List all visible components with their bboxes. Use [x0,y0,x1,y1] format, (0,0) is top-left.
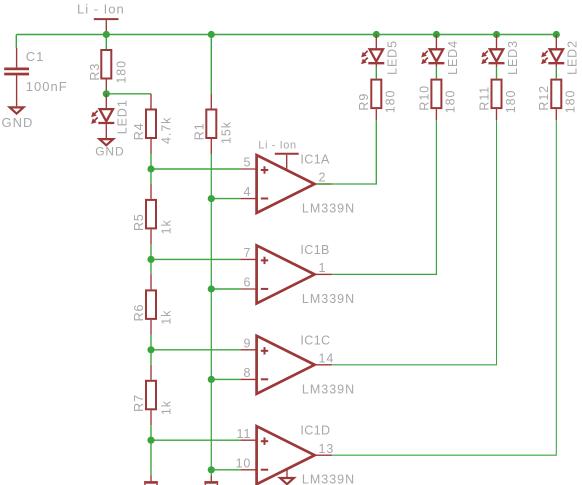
wire: node B to R6 [150,259,152,274]
label R6 [132,304,146,322]
label IC1C [300,333,330,347]
svg-text:2: 2 [319,171,327,185]
label pin 10 [236,456,252,470]
pin: R1 top pin [210,94,212,109]
svg-text:180: 180 [384,90,398,114]
junction: bus at IC1D - input [208,466,215,473]
svg-text:LM339N: LM339N [302,382,355,396]
label pin 4 [243,185,251,199]
label GND (C1) [2,115,34,130]
svg-text:LED1: LED1 [116,99,130,134]
wire: bus to IC1C - input [211,378,240,380]
pin: R6 bottom pin [150,320,152,335]
pin 5: IC1A non-inverting input stub [240,168,256,170]
resistor R9 [371,80,381,109]
pin 11: IC1D non-inverting input stub [240,439,256,441]
pin 10: IC1D inverting input stub [240,469,256,471]
svg-text:180: 180 [115,60,129,84]
svg-text:180: 180 [564,90,578,114]
label LM339N (IC1D value) [302,473,355,485]
pin: R5 bottom pin [150,229,152,244]
label R9 [357,93,371,111]
op-amp comparator IC1C (LM339N) [257,336,315,394]
pin 8: IC1C inverting input stub [240,378,256,380]
resistor R7 [146,381,156,410]
pin: R6 top pin [150,274,152,289]
label LED2 [566,40,580,75]
pin: R1 bottom pin [210,139,212,154]
resistor R12 [551,80,561,109]
wire: node to IC1B + input [151,258,240,260]
pin 7: IC1B non-inverting input stub [240,258,256,260]
junction: rail at LED5 [373,31,380,38]
label R10 [417,85,431,111]
capacitor C1 [4,48,29,107]
svg-text:R12: R12 [537,85,551,111]
label LM339N (IC1B value) [302,292,355,306]
wire: rail down to R1 [210,35,212,94]
label pin 8 [243,366,251,380]
svg-text:R3: R3 [88,63,102,81]
svg-text:LED3: LED3 [506,40,520,75]
label 4.7k (value of R4) [160,117,174,144]
ground symbol GND (bottom of divider, clipped at image edge) [144,482,158,485]
wire: node to IC1A + input [151,168,240,170]
svg-text:15k: 15k [220,121,234,144]
pin 2: IC1A output stub [316,183,332,185]
wire: node D down to ground [150,440,152,475]
wire: R5 to node B [150,244,152,259]
label R4 [132,122,146,140]
svg-text:180: 180 [504,90,518,114]
svg-text:Li - Ion: Li - Ion [258,140,296,152]
diode LED4 [421,35,444,67]
power symbol Li - Ion (battery positive rail) [94,19,119,34]
svg-text:R10: R10 [417,85,431,111]
svg-text:GND: GND [95,145,124,159]
pin 14: IC1C output stub [316,364,332,366]
wire: IC1D output up to LED column [332,120,556,455]
wire: top supply rail [16,34,556,36]
svg-text:R1: R1 [192,122,206,140]
label pin 6 [243,276,251,290]
wire: node A to R5 [150,169,152,184]
pin: R11 bottom pin [496,109,498,120]
label R5 [132,213,146,231]
wire: rail down to R3 [105,35,107,50]
wire: IC1A output up to LED column [332,120,376,184]
svg-text:8: 8 [243,366,251,380]
label pin 11 [237,427,252,441]
svg-text:IC1C: IC1C [300,333,330,347]
svg-text:LM339N: LM339N [302,292,355,306]
wire: bus to IC1D - input [211,469,240,471]
wire: LED5 cathode to R9 [375,67,377,79]
pin: GND pin under divider [150,476,152,482]
pin 4: IC1A inverting input stub [240,198,256,200]
label IC1D [300,424,330,438]
svg-text:C1: C1 [26,49,45,64]
junction: rail at R1 top [208,31,215,38]
diode LED3 [481,35,504,67]
svg-text:4.7k: 4.7k [160,117,174,144]
pin: R7 top pin [150,365,152,380]
wire: IC1C output up to LED column [332,120,497,364]
diode LED2 [541,35,564,67]
junction: rail at LED4 [433,31,440,38]
pin: R10 bottom pin [435,109,437,120]
label LED1 [116,99,130,134]
resistor R4 [146,110,156,139]
wire: R4 to divider node A [150,154,152,169]
label 100nF (value of C1) [26,79,68,94]
wire: LED4 cathode to R10 [435,67,437,79]
label LED4 [446,40,460,75]
svg-text:11: 11 [237,427,252,441]
svg-text:LM339N: LM339N [302,202,355,216]
wire: node C to R7 [150,350,152,365]
resistor R3 [101,50,111,79]
diode LED5 [361,35,384,67]
label 1k (value of R6) [160,310,174,325]
label LED3 [506,40,520,75]
pin: R3 bottom pin [105,80,107,94]
resistor R5 [146,200,156,229]
label pin 1 [319,261,327,275]
pin: R7 bottom pin [150,410,152,425]
svg-text:180: 180 [444,90,458,114]
wire: node to IC1C + input [151,349,240,351]
label pin 2 [319,171,327,185]
label R1 [192,122,206,140]
svg-text:R4: R4 [132,122,146,140]
resistor R1 [206,110,216,139]
ground symbol GND (below C1) [10,107,24,113]
junction: rail at LED3 [493,31,500,38]
svg-text:Li - Ion: Li - Ion [77,1,125,16]
label GND (LED1) [95,145,124,159]
svg-text:R9: R9 [357,93,371,111]
svg-text:IC1D: IC1D [300,424,330,438]
svg-text:1k: 1k [160,219,174,234]
junction: bus at IC1B - input [208,285,215,292]
label 1k (value of R7) [160,400,174,415]
label IC1B [300,243,329,257]
junction: bus at IC1C - input [208,376,215,383]
label 1k (value of R5) [160,219,174,234]
svg-text:7: 7 [243,246,251,260]
label 180 (value of R10) [444,90,458,114]
junction: R3 / LED1 / wire to R4 [103,90,110,97]
pin 13: IC1D output stub [316,454,332,456]
pin 6: IC1B inverting input stub [240,288,256,290]
svg-text:4: 4 [243,185,251,199]
pin 9: IC1C non-inverting input stub [240,349,256,351]
svg-text:LED4: LED4 [446,40,460,75]
pin: R4 top pin [150,94,152,109]
ground symbol GND (below LED1) [99,139,113,145]
junction: node B (R5/R6/IC1B+) [147,256,154,263]
label 180 (value of R11) [504,90,518,114]
junction: rail at LED2 [553,31,560,38]
junction: node D (R7/IC1D+) [147,437,154,444]
wire: rail down to C1 [15,35,17,48]
junction: node A (R4/R5/IC1A+) [147,165,154,172]
svg-text:R11: R11 [477,86,491,111]
resistor R11 [492,80,502,109]
pin: R12 bottom pin [555,109,557,120]
svg-text:100nF: 100nF [26,79,68,94]
label IC1A [300,153,330,167]
op-amp comparator IC1B (LM339N) [257,245,315,303]
wire: LED3 cathode to R11 [496,67,498,79]
diode LED1 (battery indicator) [91,94,114,138]
pin 1: IC1B output stub [316,273,332,275]
wire: node to IC1D + input [151,439,240,441]
label 15k (value of R1) [220,121,234,144]
pin: R4 bottom pin [150,139,152,154]
svg-text:10: 10 [236,456,252,470]
wire: R7 to node D [150,425,152,440]
junction: bus at IC1A - input [208,195,215,202]
resistor R10 [431,80,441,109]
pin: GND pin under R1 bus [210,476,212,482]
label 180 (value of R12) [564,90,578,114]
svg-text:13: 13 [319,442,335,456]
power symbol Li - Ion (V+ pin 3 of IC1A) [275,154,299,170]
label R7 [132,394,146,412]
wire: LED2 cathode to R12 [555,67,557,79]
wire: R6 to node C [150,335,152,350]
wire: bus to IC1A - input [211,198,240,200]
junction: rail at R3 top [103,31,110,38]
svg-text:IC1B: IC1B [300,243,329,257]
label C1 [26,49,45,64]
resistor R6 [146,290,156,319]
svg-text:LM339N: LM339N [302,473,355,485]
label LM339N (IC1A value) [302,202,355,216]
label 180 (value of R9) [384,90,398,114]
label R3 [88,63,102,81]
svg-text:1: 1 [319,261,327,275]
label 180 (value of R3) [115,60,129,84]
wire: IC1B output up to LED column [332,120,437,274]
svg-text:R7: R7 [132,394,146,412]
svg-text:1k: 1k [160,310,174,325]
svg-text:14: 14 [319,351,335,365]
svg-text:1k: 1k [160,400,174,415]
label LED5 [386,40,400,75]
label Li - Ion (top supply) [77,1,125,16]
label pin 7 [243,246,251,260]
op-amp comparator IC1A (LM339N) [257,155,315,213]
svg-text:LED2: LED2 [566,40,580,75]
svg-text:GND: GND [2,115,34,130]
label LM339N (IC1C value) [302,382,355,396]
label pin 5 [243,156,251,170]
junction: node C (R6/R7/IC1C+) [147,346,154,353]
svg-text:IC1A: IC1A [300,153,330,167]
op-amp comparator IC1D (LM339N) [257,426,315,484]
label R12 [537,85,551,111]
svg-text:5: 5 [243,156,251,170]
svg-text:9: 9 [243,336,251,350]
ground symbol GND (pin 12 of IC1D) [280,469,294,484]
label pin 13 [319,442,335,456]
svg-text:R5: R5 [132,213,146,231]
label Li - Ion (IC1A supply) [258,140,296,152]
ground symbol GND (bottom of R1 bus, clipped at image edge) [204,482,218,485]
wire: bus to IC1B - input [211,288,240,290]
svg-text:LED5: LED5 [386,40,400,75]
label R11 [477,86,491,111]
pin: R9 bottom pin [375,109,377,120]
svg-text:6: 6 [243,276,251,290]
pin: R5 top pin [150,184,152,199]
wire: R1 down the inverting input bus [210,154,212,475]
wire: R3/LED1 node to R4 top [106,93,151,95]
label pin 14 [319,351,335,365]
label pin 9 [243,336,251,350]
svg-text:R6: R6 [132,304,146,322]
